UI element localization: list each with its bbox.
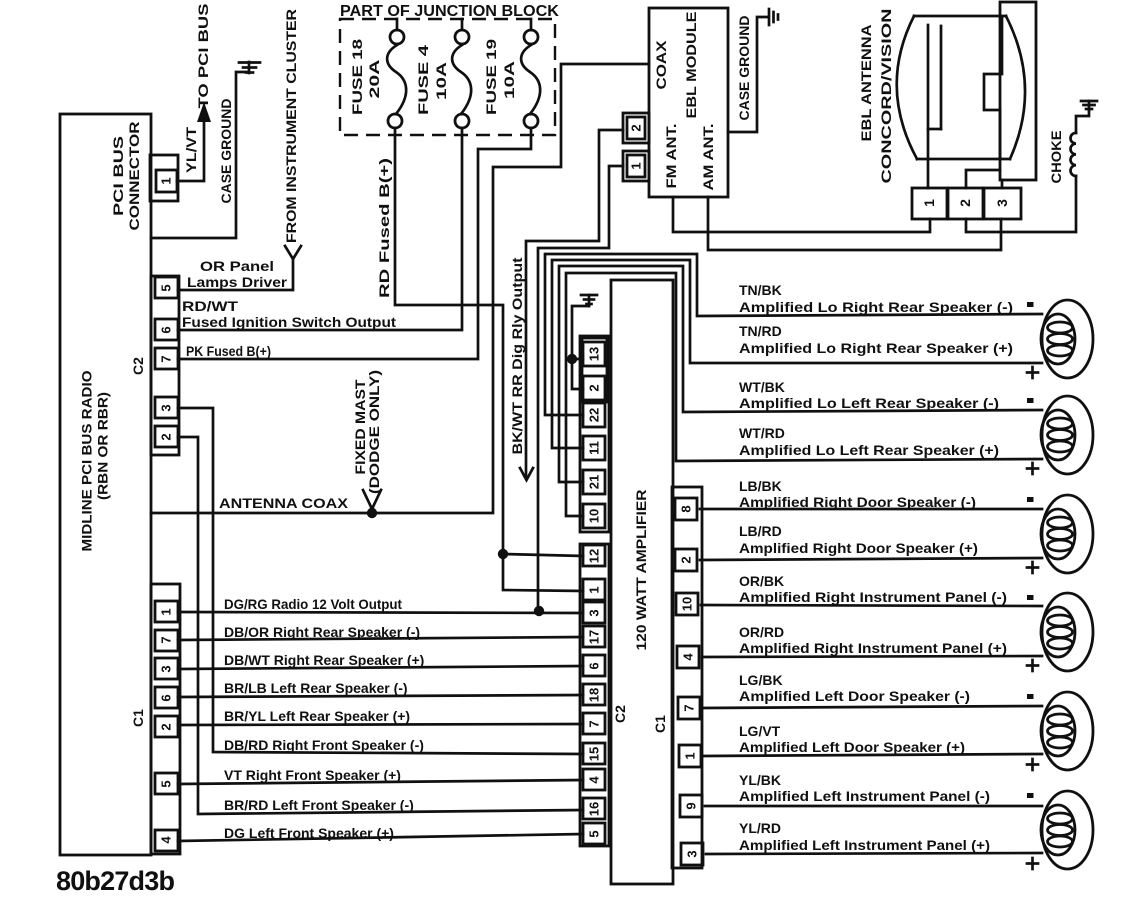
pin 4 (amp C2) — [583, 769, 605, 790]
wire LB/BK from amp C1 pin 8 — [700, 508, 1042, 511]
svg-text:Amplified Left Door Speaker (+: Amplified Left Door Speaker (+) — [739, 739, 965, 755]
wire OR/BK from amp C1 pin 10 — [701, 605, 1042, 606]
svg-text:DB/WT Right Rear Speaker (+): DB/WT Right Rear Speaker (+) — [224, 652, 424, 668]
polarity plus SP1 — [1027, 367, 1038, 378]
wire EBL case ground — [728, 17, 768, 132]
svg-text:18: 18 — [587, 688, 602, 702]
pin 3 (radio C1) — [155, 658, 178, 679]
junction block dashed box — [340, 19, 555, 135]
pin 16 (amp C2) — [583, 798, 605, 819]
wire AM ANT to antenna pin 3 — [708, 197, 1001, 250]
fuse F19 FUSE 19 10A — [483, 19, 540, 128]
wire to pin 2 — [572, 359, 583, 389]
connector C2 (amp upper strip) — [580, 336, 609, 532]
svg-text:C1: C1 — [652, 715, 668, 733]
wire LB/RD from amp C1 pin 2 — [700, 558, 1042, 560]
svg-text:FUSE 4: FUSE 4 — [415, 45, 431, 115]
svg-text:20A: 20A — [366, 60, 382, 99]
wire PK fused B+ to fuse 19 — [178, 128, 531, 359]
junction dot RD fused B+ — [498, 549, 508, 559]
wire EBL pin1 to 12 volt output row — [538, 166, 623, 611]
svg-text:Amplified Right Instrument Pan: Amplified Right Instrument Panel (+) — [739, 640, 1007, 656]
svg-text:7: 7 — [159, 355, 174, 362]
arrow fixed mast — [363, 490, 381, 509]
pin 1 (EBL module) — [623, 151, 649, 181]
antenna EBL ANTENNA CONCORD/VISION — [858, 9, 894, 184]
wire radio case ground — [151, 72, 247, 238]
svg-text:Amplified Right Door Speaker (: Amplified Right Door Speaker (-) — [739, 494, 976, 510]
wire VT — [178, 780, 583, 784]
junction dot antenna coax / fixed mast — [367, 508, 377, 518]
svg-text:CASE GROUND: CASE GROUND — [736, 15, 752, 120]
pin 12 (amp C2) — [583, 545, 605, 566]
svg-text:Amplified Lo Left Rear Speaker: Amplified Lo Left Rear Speaker (+) — [739, 442, 999, 458]
svg-text:FROM INSTRUMENT CLUSTER: FROM INSTRUMENT CLUSTER — [283, 9, 299, 243]
svg-text:CASE GROUND: CASE GROUND — [218, 98, 234, 203]
speaker SP4 right instrument panel — [1041, 593, 1093, 671]
svg-text:10: 10 — [587, 509, 602, 523]
svg-text:9: 9 — [684, 802, 699, 809]
pin 10 (amp C2) — [583, 504, 605, 528]
svg-text:EBL MODULE: EBL MODULE — [683, 12, 699, 119]
svg-text:PK Fused B(+): PK Fused B(+) — [186, 343, 271, 359]
svg-text:OR Panel: OR Panel — [200, 258, 274, 274]
polarity minus SP1 — [1027, 302, 1034, 307]
svg-text:1: 1 — [683, 752, 698, 759]
pin 7 (amp C1) — [678, 697, 700, 719]
svg-text:12: 12 — [587, 549, 602, 563]
pin 6 (radio C1) — [155, 687, 178, 708]
arrow from instrument cluster — [285, 246, 301, 259]
connector C1 (radio) — [130, 584, 180, 854]
svg-text:C2: C2 — [612, 705, 628, 723]
wire LG/BK from amp C1 pin 7 — [703, 706, 1042, 708]
antenna bracket rectangle — [1000, 2, 1036, 180]
ground (amp pins 13,2) — [581, 295, 597, 306]
pin 3 (amp C2) — [583, 602, 605, 623]
svg-text:BR/RD Left Front Speaker (-): BR/RD Left Front Speaker (-) — [224, 797, 414, 813]
svg-text:80b27d3b: 80b27d3b — [56, 866, 174, 896]
svg-text:COAX: COAX — [653, 40, 669, 90]
polarity minus SP4 — [1027, 595, 1034, 600]
svg-text:CONCORD/VISION: CONCORD/VISION — [878, 9, 894, 184]
wire antenna pin3 to bracket — [1001, 180, 1004, 188]
pin 6 (radio C2) — [155, 319, 178, 340]
wire branch to amp C2 pin 12 — [503, 554, 583, 556]
svg-text:3: 3 — [159, 404, 174, 411]
svg-text:DB/RD Right Front Speaker (-): DB/RD Right Front Speaker (-) — [224, 737, 424, 753]
svg-text:Amplified Left Instrument Pane: Amplified Left Instrument Panel (-) — [739, 788, 990, 804]
wire antenna pin2 to glass — [966, 170, 1000, 188]
svg-text:10A: 10A — [433, 62, 449, 100]
wire RD fused B+ from fuse 18 to amp pins 12 and 1 — [395, 128, 503, 554]
svg-text:BR/LB Left Rear Speaker (-): BR/LB Left Rear Speaker (-) — [224, 680, 408, 696]
connector C2 (amp lower strip) — [580, 544, 609, 846]
svg-text:3: 3 — [587, 609, 602, 616]
module EBL MODULE box — [649, 8, 728, 197]
svg-text:EBL ANTENNA: EBL ANTENNA — [858, 25, 874, 142]
svg-text:13: 13 — [587, 347, 602, 361]
pin 2 (radio C1) — [155, 716, 178, 737]
pin 5 (radio C1) — [155, 773, 178, 794]
wire radio C2 pin2 to amp BR/RD left front speaker - — [178, 437, 583, 814]
svg-text:FUSE 18: FUSE 18 — [349, 39, 365, 115]
wire DB/WT — [178, 666, 583, 669]
svg-text:2: 2 — [587, 384, 602, 391]
svg-text:Amplified Lo Left Rear Speaker: Amplified Lo Left Rear Speaker (-) — [739, 395, 999, 411]
pin 21 (amp C2) — [583, 470, 605, 494]
svg-text:C2: C2 — [130, 357, 146, 375]
svg-text:YL/BK: YL/BK — [739, 772, 781, 788]
svg-text:BK/WT RR Dig Rly Output: BK/WT RR Dig Rly Output — [509, 257, 525, 454]
pin 15 (amp C2) — [583, 743, 605, 764]
wire antenna coax — [151, 64, 649, 513]
pin 18 (amp C2) — [583, 684, 605, 705]
svg-text:Amplified Lo Right Rear Speake: Amplified Lo Right Rear Speaker (+) — [739, 340, 1013, 356]
svg-text:120 WATT AMPLIFIER: 120 WATT AMPLIFIER — [633, 490, 649, 651]
wire fused ignition switch output to fuse 4 — [178, 128, 462, 330]
pin 8 (amp C1) — [675, 498, 697, 520]
pin 6 (amp C2) — [583, 655, 605, 676]
svg-text:YL/RD: YL/RD — [739, 820, 781, 836]
svg-text:CONNECTOR: CONNECTOR — [126, 122, 142, 231]
svg-text:Amplified Right Door Speaker (: Amplified Right Door Speaker (+) — [739, 540, 978, 556]
svg-text:OR/RD: OR/RD — [739, 624, 784, 640]
svg-text:15: 15 — [587, 747, 602, 761]
svg-text:DG/RG Radio 12 Volt Output: DG/RG Radio 12 Volt Output — [224, 596, 402, 612]
svg-text:2: 2 — [629, 124, 644, 131]
svg-text:3: 3 — [685, 850, 700, 857]
wire choke to ground — [1076, 110, 1089, 133]
wire DG/RG 12 volt output — [178, 612, 583, 613]
polarity minus SP6 — [1027, 793, 1034, 798]
ground (radio case ground) — [239, 62, 260, 73]
pin 2 (radio C2) — [155, 426, 178, 447]
svg-text:22: 22 — [587, 408, 602, 422]
svg-text:21: 21 — [587, 475, 602, 489]
speaker SP5 left door — [1041, 692, 1093, 770]
pin 7 (radio C2) — [155, 348, 178, 369]
pin 7 (radio C1) — [155, 630, 178, 651]
svg-text:7: 7 — [159, 636, 174, 643]
svg-text:AM ANT.: AM ANT. — [700, 124, 716, 191]
svg-text:PCI BUS: PCI BUS — [110, 136, 126, 216]
inductor choke coil — [1070, 133, 1076, 176]
pin 3 (amp C1) — [681, 843, 703, 865]
svg-text:Amplified Right Instrument Pan: Amplified Right Instrument Panel (-) — [739, 589, 1007, 605]
connector C2 (amp sub box pins 13,2) — [582, 338, 607, 402]
svg-text:11: 11 — [587, 441, 602, 455]
svg-text:2: 2 — [159, 723, 174, 730]
pin 10 (amp C1) — [676, 593, 698, 615]
ground (choke) — [1081, 101, 1097, 110]
svg-text:1: 1 — [159, 608, 174, 615]
svg-text:8: 8 — [679, 505, 694, 512]
svg-text:WT/BK: WT/BK — [739, 379, 785, 395]
svg-text:7: 7 — [682, 704, 697, 711]
fuse F4 FUSE 4 10A — [415, 19, 471, 128]
pin 1 (amp C2) — [583, 579, 605, 600]
svg-text:6: 6 — [159, 326, 174, 333]
pin 3 (radio C2) — [155, 397, 178, 418]
connector PCI BUS CONNECTOR — [110, 122, 178, 231]
svg-text:FUSE 19: FUSE 19 — [483, 39, 499, 115]
wire BR/LB — [178, 695, 583, 697]
ground (EBL case ground) — [769, 9, 778, 25]
svg-text:LG/BK: LG/BK — [739, 672, 783, 688]
pin 1 (PCI BUS CONNECTOR) — [156, 170, 177, 192]
connector antenna 1 2 3 — [912, 188, 1021, 219]
svg-text:(DODGE ONLY): (DODGE ONLY) — [366, 370, 382, 494]
pin 2 (amp C2) — [583, 376, 605, 400]
svg-text:4: 4 — [681, 653, 696, 661]
svg-text:Fused Ignition Switch Output: Fused Ignition Switch Output — [182, 314, 396, 330]
svg-text:RD Fused B(+): RD Fused B(+) — [376, 158, 392, 298]
svg-text:4: 4 — [587, 776, 602, 784]
amplifier U2 120 WATT AMPLIFIER box — [611, 280, 673, 884]
svg-text:WT/RD: WT/RD — [739, 425, 785, 441]
pin 9 (amp C1) — [680, 795, 702, 817]
svg-text:3: 3 — [994, 199, 1010, 207]
pin 5 (radio C2) — [155, 277, 178, 298]
speaker SP3 right door — [1041, 495, 1093, 573]
svg-text:3: 3 — [159, 665, 174, 672]
pin 22 (amp C2) — [583, 403, 605, 427]
pin 2 (amp C1) — [675, 549, 697, 571]
pin 11 (amp C2) — [583, 436, 605, 460]
wire to pin 13 — [572, 358, 583, 361]
pin 7 (amp C2) — [583, 713, 605, 734]
pin 17 (amp C2) — [583, 626, 605, 647]
svg-text:10: 10 — [680, 597, 695, 611]
pin 4 (radio C1) — [155, 830, 178, 851]
polarity plus SP4 — [1027, 660, 1038, 671]
wire EBL pin2 BK/WT RR dig rly output — [526, 130, 623, 476]
svg-text:PART OF JUNCTION BLOCK: PART OF JUNCTION BLOCK — [340, 3, 559, 20]
speaker SP6 left instrument panel — [1041, 791, 1093, 869]
svg-text:1: 1 — [159, 177, 174, 184]
svg-text:10A: 10A — [501, 61, 517, 99]
svg-text:VT Right Front Speaker (+): VT Right Front Speaker (+) — [224, 767, 401, 783]
arrow to PCI bus — [197, 102, 211, 122]
svg-text:2: 2 — [679, 556, 694, 563]
polarity plus SP5 — [1027, 759, 1038, 770]
svg-text:17: 17 — [587, 630, 602, 644]
antenna grid line 2 — [928, 26, 941, 129]
svg-text:2: 2 — [159, 433, 174, 440]
polarity minus SP2 — [1027, 398, 1034, 403]
svg-text:YL/VT: YL/VT — [183, 126, 199, 173]
svg-text:5: 5 — [159, 780, 174, 787]
polarity minus SP3 — [1027, 497, 1034, 502]
wire BR/YL — [178, 724, 583, 725]
polarity plus SP3 — [1027, 562, 1038, 573]
svg-text:LB/BK: LB/BK — [739, 478, 782, 494]
pin 1 (amp C1) — [679, 745, 701, 767]
polarity minus SP5 — [1027, 694, 1034, 699]
wire amp pin21 to WT/BK speaker row — [559, 266, 1042, 482]
arrow BK/WT RR dig rly output — [520, 468, 533, 480]
speaker SP1 right rear — [1041, 300, 1093, 378]
wire antenna pin2 to choke — [966, 176, 1076, 232]
svg-text:2: 2 — [957, 199, 973, 207]
svg-text:LB/RD: LB/RD — [739, 523, 782, 539]
connector C1 (amp right strip) — [672, 487, 702, 868]
radio U1 MIDLINE PCI BUS RADIO box — [60, 114, 151, 855]
wire radio C2 pin3 to amp DB/RD right front speaker - — [178, 408, 583, 754]
wire amp pin10 to WT/RD speaker row — [566, 273, 1042, 516]
connector C2 (radio) — [130, 276, 179, 455]
wire amp pin11 to TN/RD speaker row — [552, 260, 1042, 448]
svg-text:RD/WT: RD/WT — [182, 298, 239, 314]
svg-text:OR/BK: OR/BK — [739, 573, 784, 589]
svg-text:TN/BK: TN/BK — [739, 282, 782, 298]
pin 1 (radio C1) — [155, 601, 178, 622]
polarity plus SP6 — [1027, 858, 1038, 869]
speaker SP2 left rear — [1041, 396, 1093, 474]
svg-text:Amplified Left Instrument Pane: Amplified Left Instrument Panel (+) — [739, 837, 990, 853]
svg-text:7: 7 — [587, 720, 602, 727]
junction dot EBL pin1 / 12V row — [534, 606, 544, 616]
svg-text:6: 6 — [159, 694, 174, 701]
svg-text:6: 6 — [587, 662, 602, 669]
svg-text:TN/RD: TN/RD — [739, 323, 782, 339]
wire DB/OR — [178, 637, 583, 640]
junction dot ground/pin13 — [567, 354, 577, 364]
svg-text:FM ANT.: FM ANT. — [663, 124, 679, 189]
svg-text:4: 4 — [159, 836, 174, 844]
wire YL/RD from amp C1 pin 3 — [706, 853, 1042, 854]
svg-text:BR/YL Left Rear Speaker (+): BR/YL Left Rear Speaker (+) — [224, 708, 410, 724]
svg-text:Amplified Left Door Speaker (-: Amplified Left Door Speaker (-) — [739, 688, 970, 704]
wire DG — [178, 834, 583, 841]
svg-text:16: 16 — [587, 802, 602, 816]
wire OR/RD from amp C1 pin 4 — [702, 656, 1042, 657]
pin 5 (amp C2) — [583, 823, 605, 844]
svg-text:5: 5 — [159, 284, 174, 291]
wire amp ground to pins 13 and 2 — [572, 306, 589, 359]
antenna grid line 1 — [927, 25, 930, 188]
wire branch to amp C2 pin 1 — [503, 554, 583, 591]
wire YL/VT to PCI bus — [177, 120, 204, 181]
svg-text:CHOKE: CHOKE — [1048, 131, 1064, 184]
pin 13 (amp C2) — [583, 342, 605, 366]
svg-text:1: 1 — [629, 162, 644, 169]
svg-text:Lamps Driver: Lamps Driver — [187, 274, 288, 290]
wire LG/VT from amp C1 pin 1 — [704, 754, 1042, 756]
pin 2 (EBL module) — [623, 113, 649, 143]
svg-text:MIDLINE PCI BUS RADIO: MIDLINE PCI BUS RADIO — [80, 371, 95, 552]
wire amp pin22 to TN/BK speaker row — [545, 254, 1042, 415]
antenna lead step shape — [984, 17, 1002, 157]
fuse F18 FUSE 18 20A — [349, 19, 406, 128]
svg-text:Amplified Lo Right Rear Speake: Amplified Lo Right Rear Speaker (-) — [739, 299, 1013, 315]
antenna rear glass outline — [897, 16, 1025, 159]
svg-text:C1: C1 — [130, 709, 146, 727]
svg-text:ANTENNA COAX: ANTENNA COAX — [219, 495, 349, 511]
svg-text:TO PCI BUS: TO PCI BUS — [195, 4, 211, 109]
svg-text:(RBN OR RBR): (RBN OR RBR) — [96, 392, 111, 500]
svg-text:5: 5 — [587, 830, 602, 837]
svg-text:LG/VT: LG/VT — [739, 723, 781, 739]
wire FM ANT to antenna pin 1 — [673, 197, 930, 232]
wire YL/BK from amp C1 pin 9 — [705, 805, 1042, 808]
polarity plus SP2 — [1027, 463, 1038, 474]
pin 4 (amp C1) — [677, 646, 699, 668]
wire OR panel lamps driver — [178, 258, 293, 290]
svg-text:1: 1 — [921, 199, 937, 207]
svg-text:1: 1 — [587, 586, 602, 593]
